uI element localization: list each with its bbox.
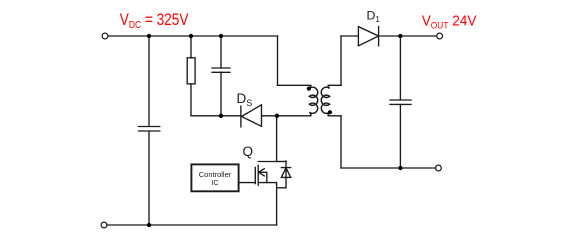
wire top rail: [108, 35, 278, 37]
diode DS: [241, 105, 262, 127]
wire secondary bottom rail: [341, 167, 436, 169]
node output bottom / cap: [398, 166, 402, 170]
node top rail / snubber cap: [219, 34, 223, 38]
resistor R snubber: [187, 58, 195, 84]
label VDC = 325V: [120, 11, 189, 31]
body diode bottom link: [277, 187, 286, 189]
transformer secondary phase dot: [328, 110, 332, 114]
input terminal bottom-left: [101, 222, 107, 228]
wire left rail lower: [148, 131, 150, 225]
svg-text:VDC = 325V: VDC = 325V: [120, 11, 189, 31]
wire bottom rail: [107, 224, 277, 226]
transformer secondary winding: [321, 85, 341, 116]
svg-text:Q: Q: [243, 144, 254, 159]
svg-text:VOUT 24V: VOUT 24V: [422, 12, 478, 30]
diode D1: [358, 27, 378, 46]
node top rail / left rail: [147, 34, 151, 38]
wire secondary bottom drop: [340, 116, 342, 168]
MOSFET Q source arrow stub: [258, 172, 267, 182]
wire D1 to output terminal: [379, 35, 437, 37]
wire right drop of top rail: [277, 36, 279, 85]
MOSFET Q source vertical: [276, 183, 278, 225]
wire output cap branch upper: [399, 36, 401, 100]
label VOUT 24V: [422, 12, 478, 30]
output terminal top-right: [437, 33, 443, 39]
transformer primary winding: [278, 85, 318, 116]
wire DS to primary: [262, 115, 310, 117]
wire snubber cap branch: [220, 36, 222, 116]
input terminal top-left: [102, 33, 108, 39]
MOSFET Q gate bar: [254, 167, 256, 183]
capacitor C snubber: [212, 68, 230, 72]
node top rail / resistor: [189, 34, 193, 38]
wire resistor branch: [190, 36, 192, 116]
controller IC box: [191, 164, 238, 191]
output terminal bottom-right: [436, 165, 442, 171]
transformer primary phase dot: [307, 87, 311, 91]
body diode: [281, 161, 290, 188]
wire left rail upper: [148, 36, 150, 126]
MOSFET Q drain stub: [258, 161, 276, 163]
capacitor C_in: [139, 127, 160, 132]
body diode top link: [277, 161, 286, 163]
node output top / cap: [398, 34, 402, 38]
node snubber bottom / cap: [219, 114, 223, 118]
capacitor C_out: [390, 100, 411, 104]
wire secondary top to D1: [341, 35, 358, 37]
MOSFET Q arrow head: [259, 169, 265, 176]
svg-text:DS: DS: [237, 91, 253, 108]
svg-text:IC: IC: [211, 178, 219, 187]
node bottom rail / left rail: [147, 223, 151, 227]
wire output cap branch lower: [399, 105, 401, 168]
MOSFET Q gate lead: [239, 182, 256, 184]
MOSFET Q channel bar: [257, 165, 259, 185]
svg-text:D1: D1: [367, 9, 381, 25]
wire snubber bottom: [191, 115, 241, 117]
wire drain drop: [276, 116, 278, 162]
MOSFET Q source stub: [258, 182, 276, 184]
node primary bottom / drain: [275, 114, 279, 118]
wire secondary top riser: [340, 36, 342, 85]
